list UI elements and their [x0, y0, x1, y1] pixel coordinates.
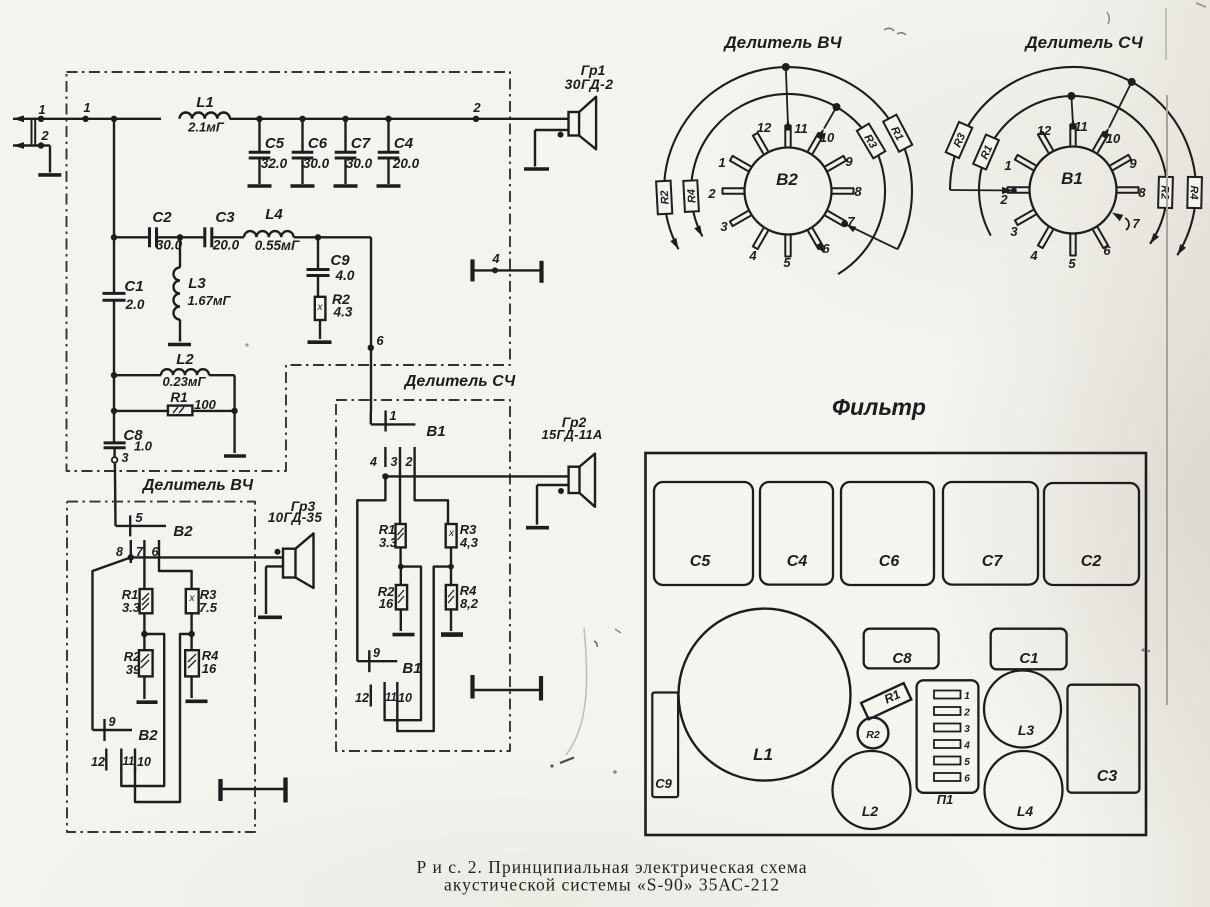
svg-text:C1: C1	[124, 278, 143, 295]
svg-text:1: 1	[38, 102, 45, 117]
svg-text:L2: L2	[862, 803, 879, 819]
svg-text:4.0: 4.0	[335, 268, 355, 283]
svg-text:1: 1	[389, 408, 396, 423]
svg-text:3: 3	[391, 455, 398, 469]
svg-text:3: 3	[1010, 224, 1018, 239]
svg-text:6: 6	[964, 774, 970, 785]
svg-text:16: 16	[202, 661, 217, 676]
svg-text:C4: C4	[787, 553, 808, 570]
svg-text:R4: R4	[686, 189, 699, 204]
svg-text:39: 39	[126, 662, 141, 677]
svg-text:5: 5	[964, 757, 970, 768]
svg-text:B1: B1	[426, 423, 445, 440]
svg-text:B2: B2	[776, 170, 798, 189]
svg-text:Фильтр: Фильтр	[832, 394, 926, 420]
svg-text:R2: R2	[866, 729, 880, 741]
svg-text:0.55мГ: 0.55мГ	[255, 238, 300, 253]
svg-text:C9: C9	[655, 776, 672, 791]
svg-text:3: 3	[122, 451, 129, 465]
svg-text:2: 2	[405, 455, 413, 469]
svg-text:7: 7	[1132, 216, 1140, 231]
svg-text:R1: R1	[170, 390, 187, 405]
svg-text:1.67мГ: 1.67мГ	[188, 293, 232, 308]
svg-text:2.1мГ: 2.1мГ	[187, 120, 225, 135]
svg-text:20.0: 20.0	[392, 156, 420, 171]
svg-text:C6: C6	[879, 553, 900, 570]
svg-text:30.0: 30.0	[303, 156, 330, 171]
svg-text:C2: C2	[152, 209, 172, 226]
svg-text:L4: L4	[265, 206, 283, 223]
svg-text:4.3: 4.3	[333, 305, 353, 320]
svg-text:6: 6	[376, 333, 384, 348]
svg-text:3: 3	[720, 219, 728, 234]
svg-text:Делитель СЧ: Делитель СЧ	[403, 373, 516, 390]
svg-text:1: 1	[1004, 158, 1011, 173]
svg-text:30ГД-2: 30ГД-2	[565, 76, 614, 92]
svg-text:L1: L1	[753, 745, 773, 764]
svg-text:B2: B2	[173, 523, 193, 540]
svg-text:1: 1	[964, 691, 970, 702]
svg-text:х: х	[317, 302, 324, 313]
svg-text:7.5: 7.5	[199, 600, 218, 615]
svg-text:х: х	[448, 528, 455, 539]
svg-text:11: 11	[385, 692, 397, 704]
svg-text:12: 12	[355, 691, 369, 705]
svg-text:8: 8	[116, 545, 123, 559]
svg-text:5: 5	[1068, 256, 1076, 271]
svg-text:C5: C5	[690, 553, 712, 570]
svg-text:L2: L2	[176, 351, 194, 368]
svg-text:1.0: 1.0	[134, 439, 153, 454]
svg-text:11: 11	[794, 121, 808, 136]
svg-text:П1: П1	[937, 792, 954, 807]
svg-text:9: 9	[1129, 156, 1137, 171]
svg-text:0.23мГ: 0.23мГ	[163, 374, 207, 389]
svg-text:11: 11	[123, 756, 135, 768]
svg-text:2: 2	[40, 128, 49, 143]
svg-text:2: 2	[999, 192, 1008, 207]
svg-text:C7: C7	[351, 135, 371, 152]
svg-text:6: 6	[822, 241, 830, 256]
svg-text:C6: C6	[308, 135, 328, 152]
svg-text:5: 5	[135, 510, 143, 525]
svg-text:3.3: 3.3	[379, 535, 398, 550]
svg-text:3.3: 3.3	[122, 600, 141, 615]
svg-text:8: 8	[1138, 185, 1146, 200]
svg-text:L3: L3	[1018, 722, 1035, 738]
svg-text:5: 5	[783, 255, 791, 270]
svg-text:20.0: 20.0	[212, 238, 240, 253]
svg-text:12: 12	[1037, 123, 1052, 138]
svg-text:C1: C1	[1019, 650, 1038, 667]
svg-text:L4: L4	[1017, 803, 1034, 819]
svg-text:11: 11	[1074, 119, 1088, 134]
svg-text:Делитель ВЧ: Делитель ВЧ	[141, 477, 254, 494]
svg-text:2: 2	[472, 100, 481, 115]
svg-text:10: 10	[398, 691, 412, 705]
svg-text:1: 1	[718, 155, 725, 170]
svg-text:10: 10	[137, 755, 151, 769]
svg-text:C2: C2	[1081, 553, 1102, 570]
svg-text:B1: B1	[1061, 169, 1083, 188]
svg-text:4: 4	[963, 741, 970, 752]
svg-text:10: 10	[1106, 131, 1121, 146]
svg-text:L1: L1	[196, 94, 214, 111]
svg-text:C4: C4	[394, 135, 414, 152]
svg-text:9: 9	[373, 646, 380, 660]
svg-text:х: х	[189, 593, 196, 604]
svg-text:16: 16	[379, 596, 394, 611]
svg-text:акустической системы «S-90»: акустической системы «S-90» 35АС-212	[444, 875, 780, 895]
svg-text:R4: R4	[1187, 185, 1199, 199]
svg-text:2.0: 2.0	[125, 297, 145, 312]
svg-text:12: 12	[757, 120, 772, 135]
svg-text:1: 1	[83, 100, 90, 115]
svg-text:9: 9	[845, 154, 853, 169]
svg-text:30.0: 30.0	[156, 238, 183, 253]
svg-text:4: 4	[369, 455, 377, 469]
svg-text:Делитель СЧ: Делитель СЧ	[1023, 33, 1143, 52]
svg-text:15ГД-11А: 15ГД-11А	[541, 427, 602, 442]
svg-text:B1: B1	[402, 660, 421, 677]
svg-text:C5: C5	[265, 135, 285, 152]
svg-text:B2: B2	[138, 727, 158, 744]
svg-text:8: 8	[854, 184, 862, 199]
svg-text:2: 2	[963, 708, 970, 719]
svg-text:32.0: 32.0	[261, 156, 288, 171]
svg-text:4: 4	[491, 251, 500, 266]
svg-text:C3: C3	[1097, 768, 1118, 785]
svg-text:C8: C8	[892, 650, 912, 667]
svg-text:3: 3	[964, 724, 970, 735]
svg-text:4: 4	[748, 248, 757, 263]
svg-text:2: 2	[707, 186, 716, 201]
svg-text:R2: R2	[1158, 185, 1170, 199]
svg-text:C9: C9	[330, 252, 350, 269]
svg-text:4,3: 4,3	[459, 535, 479, 550]
svg-text:6: 6	[1103, 243, 1111, 258]
svg-text:4: 4	[1029, 248, 1038, 263]
svg-text:C3: C3	[215, 209, 235, 226]
svg-text:10ГД-35: 10ГД-35	[268, 510, 323, 525]
svg-text:L3: L3	[188, 275, 206, 292]
svg-text:30.0: 30.0	[346, 156, 373, 171]
svg-text:9: 9	[109, 715, 116, 729]
svg-text:8,2: 8,2	[460, 596, 479, 611]
svg-text:12: 12	[91, 755, 105, 769]
svg-text:R2: R2	[659, 190, 672, 205]
svg-text:C7: C7	[982, 553, 1004, 570]
svg-text:Делитель ВЧ: Делитель ВЧ	[722, 33, 842, 52]
